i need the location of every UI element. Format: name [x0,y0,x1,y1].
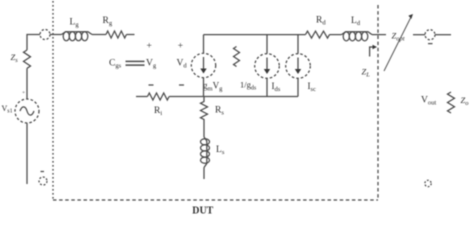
svg-text:Isc: Isc [308,81,317,93]
node circle bottom-left [39,177,47,185]
arrow ZL pointing into load [362,45,378,79]
dependent current source gmVg [191,53,223,92]
voltage source Vs1 [2,99,40,123]
svg-text:Ld: Ld [351,16,361,27]
top rail wire [204,34,306,36]
wire below Vs1 [26,123,28,184]
wire Rg to gate end [126,34,134,36]
svg-text:Cgs: Cgs [109,59,122,70]
svg-text:+: + [147,42,152,52]
minus mark below output node [428,43,433,45]
inductor Ls [201,137,225,168]
impedance Zopt with variable arrow [384,14,413,71]
bottom rail wire left [136,96,148,98]
svg-text:Rd: Rd [316,16,326,27]
svg-text:Zo: Zo [461,95,470,107]
DUT boundary left dotted edge [52,1,54,200]
resistor Rs [201,97,225,124]
svg-text:gmVg: gmVg [203,81,223,93]
svg-text:Lg: Lg [70,18,80,29]
DUT boundary right dashed edge [377,5,379,200]
label Vd with polarity [177,42,188,86]
bottom rail wire right [169,96,298,98]
node circle bottom-right [425,180,431,186]
node input port dashed circle [40,30,50,40]
wire below Ls [203,168,205,180]
svg-text:Ls: Ls [216,145,225,156]
svg-text:+: + [178,42,183,52]
node output dashed circle [425,30,435,40]
label Vg with polarity [146,42,157,86]
wire from input node to Lg [50,34,62,36]
svg-text:+: + [22,90,25,96]
wire Ld to Zopt [372,34,386,36]
resistor Zo [448,92,470,113]
resistor Rd [306,16,330,39]
svg-text:ZL: ZL [362,67,371,79]
wire Isc top [297,35,299,54]
current source Isc [286,54,316,93]
DUT boundary bottom dashed edge [53,199,378,201]
svg-text:Zopt: Zopt [392,31,405,43]
svg-text:Ri: Ri [154,106,162,117]
inductor Lg [62,18,93,41]
wire Zopt to output node [413,34,425,36]
resistor Ri [148,93,170,117]
svg-text:Vout: Vout [421,96,436,107]
svg-text:Rs: Rs [215,106,224,117]
resistor Zs [11,50,31,68]
wire Ids top [266,35,268,54]
wire Rs to Ls [203,123,205,137]
svg-text:Zs: Zs [11,52,19,64]
wire Rd to Ld [330,34,342,36]
svg-text:Rg: Rg [103,16,113,27]
wire Isc bottom [297,78,299,96]
wire gm source top [203,35,205,54]
svg-text:1/gds: 1/gds [240,80,257,92]
wire input top corner [27,35,40,51]
current source Ids [255,54,281,93]
minus mark near node 1 [41,171,45,173]
svg-text:Vg: Vg [146,59,157,70]
svg-text:Vs1: Vs1 [2,104,13,115]
svg-text:Ids: Ids [272,81,281,93]
svg-text:Vd: Vd [177,59,188,70]
wire Zs to source [26,68,28,99]
wire gm source bottom [203,78,205,97]
wire Lg to Rg [92,34,106,36]
wire Ids bottom [266,78,268,96]
inductor Ld [342,16,373,41]
resistor Rg [103,16,127,38]
capacitor Cgs [109,59,145,70]
resistor 1/gds [234,47,257,92]
wire output right [435,34,451,36]
svg-text:DUT: DUT [192,204,214,215]
